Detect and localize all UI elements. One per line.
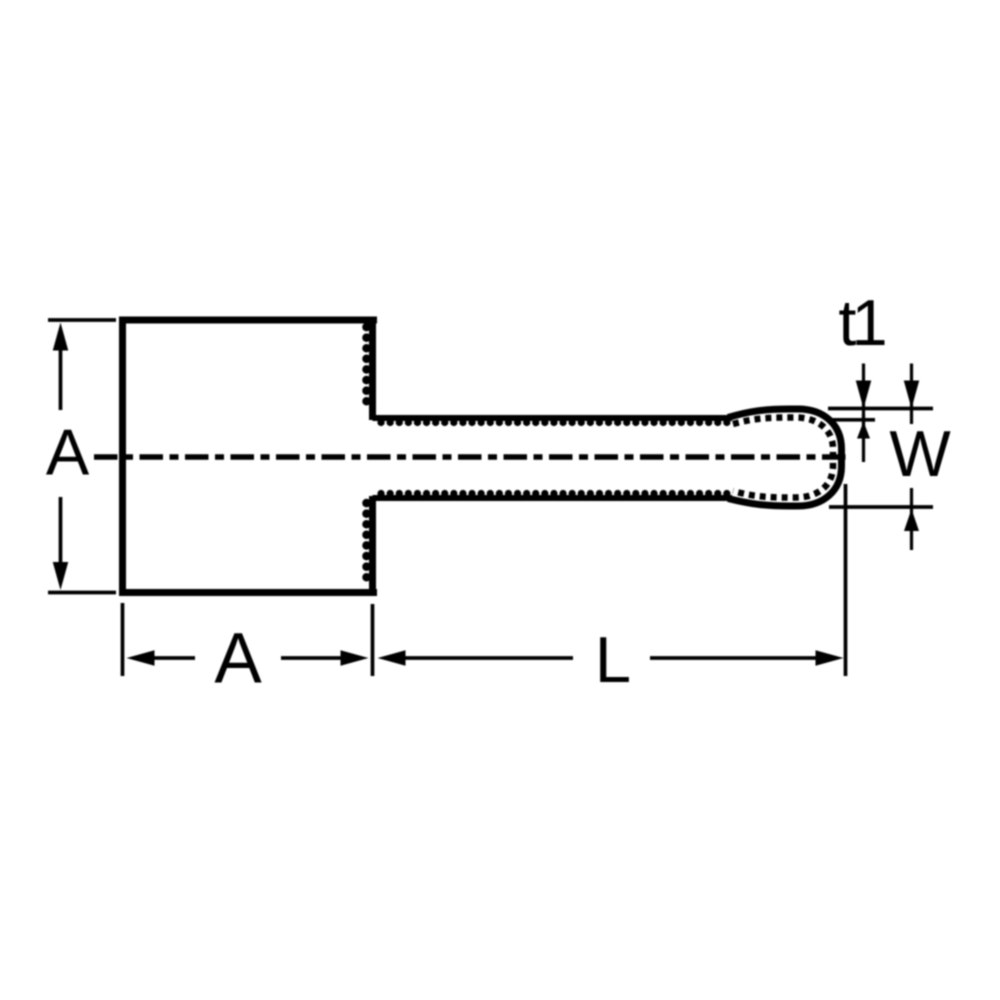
svg-text:A: A (214, 620, 262, 699)
svg-text:L: L (595, 623, 631, 696)
svg-text:W: W (889, 417, 951, 490)
svg-text:t1: t1 (838, 286, 887, 359)
svg-text:A: A (46, 416, 90, 489)
